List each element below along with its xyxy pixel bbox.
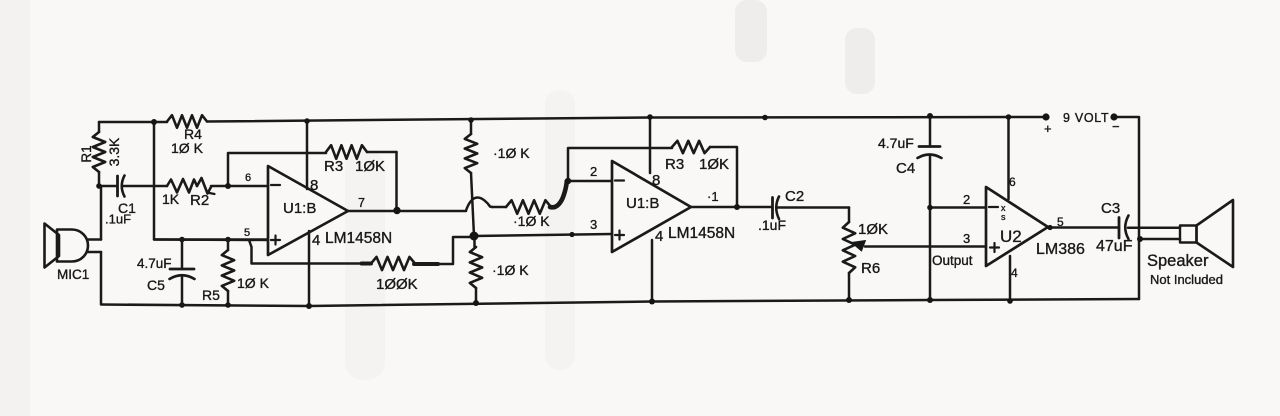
- svg-text:LM1458N: LM1458N: [668, 225, 735, 242]
- svg-text:R1: R1: [79, 145, 94, 162]
- svg-text:47uF: 47uF: [1096, 238, 1133, 255]
- svg-text:8: 8: [652, 172, 660, 189]
- svg-text:·1Ø K: ·1Ø K: [513, 213, 550, 229]
- svg-text:C4: C4: [896, 160, 915, 177]
- svg-text:MIC1: MIC1: [57, 267, 89, 282]
- svg-text:LM1458N: LM1458N: [325, 230, 392, 247]
- svg-text:LM386: LM386: [1036, 241, 1085, 258]
- svg-text:.1uF: .1uF: [105, 212, 131, 227]
- svg-text:1ØK: 1ØK: [858, 221, 888, 238]
- svg-text:1Ø K: 1Ø K: [237, 275, 270, 291]
- svg-text:R3: R3: [324, 158, 343, 175]
- svg-text:Not Included: Not Included: [1150, 272, 1223, 287]
- svg-text:R5: R5: [202, 287, 220, 303]
- svg-text:1ØK: 1ØK: [699, 156, 729, 173]
- svg-text:1K: 1K: [162, 191, 180, 207]
- svg-text:−: −: [1112, 119, 1120, 134]
- svg-text:7: 7: [358, 196, 365, 210]
- svg-text:4: 4: [312, 232, 320, 249]
- svg-text:3.3K: 3.3K: [106, 137, 122, 166]
- svg-text:4.7uF: 4.7uF: [137, 256, 172, 271]
- svg-text:U1:B: U1:B: [283, 200, 316, 217]
- svg-text:3: 3: [590, 217, 597, 232]
- svg-text:8: 8: [310, 177, 318, 194]
- svg-text:2: 2: [963, 192, 970, 207]
- svg-text:·1: ·1: [707, 189, 719, 204]
- svg-text:R3: R3: [665, 156, 684, 173]
- svg-text:.1uF: .1uF: [758, 217, 786, 233]
- svg-text:U2: U2: [1000, 227, 1022, 246]
- svg-text:R6: R6: [861, 260, 880, 277]
- svg-text:3: 3: [963, 231, 970, 246]
- svg-text:4: 4: [655, 228, 663, 245]
- svg-text:R2: R2: [190, 192, 209, 209]
- svg-text:C5: C5: [147, 277, 165, 293]
- svg-text:Speaker: Speaker: [1147, 252, 1209, 270]
- svg-text:s: s: [1001, 212, 1006, 222]
- svg-text:5: 5: [244, 227, 250, 239]
- svg-text:C3: C3: [1101, 200, 1120, 217]
- svg-text:9 VOLT: 9 VOLT: [1063, 111, 1109, 125]
- svg-text:C2: C2: [785, 188, 804, 205]
- svg-text:+: +: [1044, 121, 1052, 136]
- svg-text:Output: Output: [932, 253, 973, 268]
- svg-text:·1Ø K: ·1Ø K: [493, 145, 530, 161]
- svg-text:1ØK: 1ØK: [355, 158, 385, 175]
- svg-text:1ØØK: 1ØØK: [376, 276, 418, 293]
- svg-text:U1:B: U1:B: [626, 195, 659, 212]
- svg-text:·1Ø K: ·1Ø K: [492, 262, 529, 278]
- svg-text:6: 6: [245, 172, 251, 184]
- svg-text:4.7uF: 4.7uF: [878, 135, 914, 151]
- svg-text:6: 6: [1009, 175, 1016, 189]
- svg-text:4: 4: [1011, 266, 1018, 280]
- svg-text:1Ø K: 1Ø K: [171, 140, 204, 156]
- svg-text:2: 2: [590, 164, 597, 179]
- svg-text:5: 5: [1057, 215, 1064, 229]
